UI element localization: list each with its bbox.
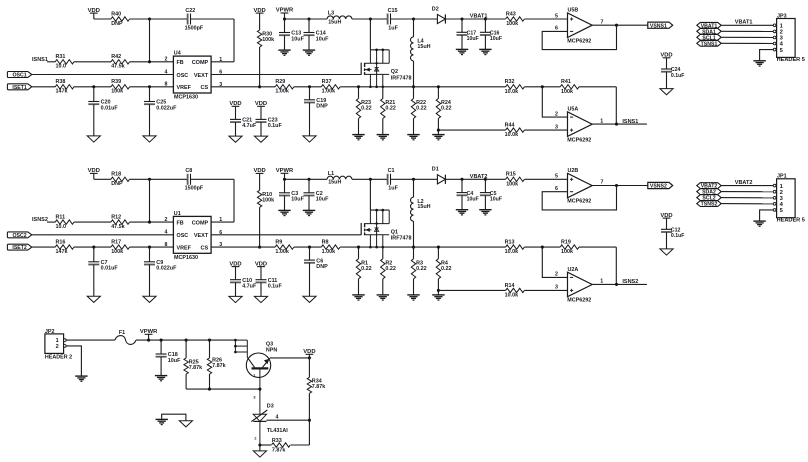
svg-text:U2A: U2A — [568, 267, 579, 273]
capacitor C14 10uF — [304, 19, 330, 42]
svg-text:ISNS1: ISNS1 — [32, 57, 48, 63]
power VDD — [660, 53, 672, 70]
resistor R42 47.5k — [111, 54, 130, 69]
svg-text:DNP: DNP — [111, 181, 123, 187]
wire — [191, 179, 235, 222]
svg-text:MCP6292: MCP6292 — [567, 38, 591, 44]
wire — [542, 87, 567, 117]
capacitor C12 0.1uF — [661, 228, 684, 240]
svg-text:4: 4 — [165, 69, 168, 75]
ground — [432, 135, 444, 140]
ground — [179, 421, 192, 427]
wire D3 ref — [267, 419, 310, 421]
svg-text:15uH: 15uH — [328, 19, 341, 25]
svg-text:R14: R14 — [505, 283, 515, 289]
svg-text:7.87k: 7.87k — [189, 365, 203, 371]
svg-text:R11: R11 — [56, 215, 66, 221]
svg-text:VREF: VREF — [177, 85, 192, 91]
wire — [413, 279, 415, 295]
power VDD — [88, 8, 100, 19]
svg-text:R32: R32 — [505, 79, 515, 85]
wire — [74, 85, 111, 88]
ground — [432, 295, 444, 300]
svg-text:VEXT: VEXT — [194, 73, 209, 79]
op-amp U5A MCP6292 — [555, 107, 603, 144]
svg-text:VREF: VREF — [177, 245, 192, 251]
svg-text:0.22: 0.22 — [441, 106, 452, 112]
svg-text:4: 4 — [276, 414, 279, 420]
wire — [32, 234, 174, 236]
svg-text:0.01uF: 0.01uF — [101, 266, 119, 272]
wire — [211, 246, 275, 248]
net label VBAT2 — [470, 174, 488, 180]
svg-text:100k: 100k — [111, 89, 123, 95]
svg-text:COMP: COMP — [192, 60, 209, 66]
svg-text:15uH: 15uH — [417, 44, 430, 50]
wire — [358, 279, 360, 295]
svg-text:R33: R33 — [272, 438, 282, 444]
wire — [437, 279, 440, 295]
wire — [149, 265, 151, 297]
wire — [484, 195, 486, 209]
svg-text:DNP: DNP — [316, 264, 328, 270]
power VDD — [229, 261, 241, 279]
svg-text:8: 8 — [165, 82, 168, 88]
wire — [74, 246, 111, 249]
svg-text:10uF: 10uF — [291, 197, 304, 203]
wire — [284, 35, 286, 50]
ground — [352, 135, 364, 140]
port SCL1 — [697, 34, 721, 41]
wire — [542, 247, 567, 277]
svg-text:2: 2 — [780, 30, 783, 36]
resistor R39 100k — [111, 79, 130, 95]
svg-text:JP2: JP2 — [45, 329, 55, 335]
wire — [391, 17, 438, 20]
wire — [309, 263, 311, 296]
svg-text:VSNS1: VSNS1 — [650, 23, 667, 29]
svg-text:47.5k: 47.5k — [111, 64, 125, 70]
power VDD — [88, 168, 100, 179]
svg-text:0.1uF: 0.1uF — [268, 123, 283, 129]
svg-text:147k: 147k — [56, 89, 68, 95]
capacitor C18 10uF — [156, 340, 181, 364]
svg-text:R42: R42 — [111, 54, 121, 60]
svg-text:100k: 100k — [111, 249, 123, 255]
svg-text:COMP: COMP — [192, 220, 209, 226]
wire — [308, 393, 311, 445]
pin numbers U4 — [165, 57, 223, 88]
svg-text:7.87k: 7.87k — [212, 363, 226, 369]
ground — [278, 50, 290, 55]
svg-text:D2: D2 — [432, 6, 439, 12]
wire — [260, 122, 262, 136]
capacitor C9 0.022uF — [144, 247, 177, 272]
port TSNS2 — [697, 201, 721, 208]
ground — [75, 376, 87, 381]
resistor R31 10.0 — [55, 54, 74, 69]
svg-text:4: 4 — [780, 42, 784, 48]
svg-text:100k: 100k — [262, 37, 274, 43]
svg-text:C22: C22 — [185, 8, 195, 14]
ground — [660, 89, 673, 95]
wire — [291, 444, 310, 446]
wire — [721, 42, 773, 44]
svg-text:5: 5 — [555, 13, 558, 19]
svg-text:1: 1 — [253, 373, 255, 377]
capacitor C2 10uF — [304, 179, 330, 202]
resistor R8 1.00k — [321, 240, 340, 256]
svg-text:U1: U1 — [174, 211, 181, 217]
connector JP2 HEADER 2 — [45, 329, 72, 361]
capacitor C1 1uF — [388, 168, 399, 192]
svg-text:TSNS1: TSNS1 — [701, 41, 718, 47]
svg-text:R44: R44 — [505, 123, 515, 129]
resistor R29 1.00k — [275, 79, 294, 95]
svg-text:1uF: 1uF — [388, 186, 398, 192]
capacitor C24 0.1uF — [661, 67, 684, 79]
svg-text:FB: FB — [177, 220, 184, 226]
wire — [438, 129, 505, 131]
svg-text:R13: R13 — [505, 240, 515, 246]
ground — [143, 136, 156, 142]
svg-text:4: 4 — [165, 230, 168, 236]
capacitor C22 1500pF — [185, 8, 204, 32]
svg-text:R8: R8 — [322, 240, 329, 246]
svg-text:10uF: 10uF — [467, 36, 479, 42]
svg-text:OSC: OSC — [177, 73, 189, 79]
wire — [382, 119, 384, 135]
svg-text:147k: 147k — [56, 249, 68, 255]
ground — [87, 136, 100, 142]
wire header pin5 to ground — [760, 50, 774, 61]
wire — [136, 339, 235, 342]
wire — [284, 196, 286, 211]
power VPWR — [276, 8, 294, 19]
svg-text:1uF: 1uF — [388, 25, 398, 31]
svg-text:MCP1630: MCP1630 — [174, 255, 198, 261]
wire base rail — [186, 388, 261, 391]
ground — [254, 136, 267, 142]
ground — [303, 136, 316, 142]
ground — [229, 136, 242, 142]
wire — [294, 85, 322, 88]
transistor Q2 IRF7478 — [361, 49, 411, 89]
wire — [666, 232, 668, 249]
svg-text:4.7uF: 4.7uF — [242, 123, 257, 129]
capacitor C20 0.01uF — [88, 87, 118, 112]
wire — [130, 246, 174, 249]
svg-text:4: 4 — [780, 202, 784, 208]
wire — [32, 86, 56, 88]
wire — [66, 346, 81, 376]
svg-text:OSC: OSC — [177, 233, 189, 239]
svg-text:IRF7478: IRF7478 — [391, 236, 412, 242]
power VDD — [253, 8, 265, 30]
svg-text:0.22: 0.22 — [385, 106, 396, 112]
svg-text:0.22: 0.22 — [416, 106, 427, 112]
svg-text:DNP: DNP — [111, 21, 123, 27]
svg-text:R15: R15 — [506, 172, 516, 178]
wire — [74, 221, 111, 223]
power VDD — [303, 349, 315, 358]
capacitor C23 0.1uF — [256, 118, 283, 130]
wire — [524, 85, 560, 88]
svg-text:DNP: DNP — [316, 104, 328, 110]
resistor R14 10.0k — [505, 283, 525, 299]
svg-text:0.22: 0.22 — [361, 266, 372, 272]
wire — [445, 17, 505, 20]
svg-text:5: 5 — [780, 208, 784, 214]
wire op-amp U5B output — [592, 24, 648, 27]
svg-text:F1: F1 — [119, 330, 125, 336]
resistor R11 10.0 — [55, 215, 74, 231]
svg-text:ISET1: ISET1 — [12, 85, 27, 91]
resistor R23 0.22 — [356, 87, 371, 119]
svg-text:3: 3 — [555, 285, 558, 291]
wire — [524, 289, 567, 291]
svg-text:0.22: 0.22 — [441, 266, 452, 272]
power VPWR — [140, 329, 158, 340]
wire ground tie — [162, 414, 186, 421]
svg-text:100k: 100k — [561, 89, 573, 95]
ground — [229, 296, 242, 302]
ground — [407, 135, 419, 140]
diode D2 — [432, 6, 446, 23]
wire — [185, 374, 187, 389]
svg-text:10uF: 10uF — [316, 197, 329, 203]
wire — [412, 61, 415, 88]
svg-text:MCP1630: MCP1630 — [174, 95, 198, 101]
capacitor C21 4.7uF — [230, 118, 257, 130]
svg-text:1.00k: 1.00k — [322, 89, 336, 95]
wire emitter to VDD — [270, 356, 311, 359]
capacitor C4 10uF — [457, 179, 479, 202]
wire — [235, 282, 237, 296]
svg-text:FB: FB — [177, 60, 184, 66]
wire — [283, 17, 327, 20]
inductor L3 15uH — [327, 11, 352, 26]
net label ISNS1 — [32, 57, 55, 63]
svg-text:R9: R9 — [275, 240, 282, 246]
connector JP1 HEADER 5 — [773, 174, 805, 224]
resistor R12 47.5k — [111, 215, 130, 231]
svg-text:2: 2 — [165, 217, 168, 223]
svg-text:10uF: 10uF — [316, 36, 329, 42]
inductor L2 15uH — [411, 179, 431, 221]
wire — [437, 119, 440, 135]
ground — [352, 295, 364, 300]
svg-text:R31: R31 — [56, 54, 66, 60]
wire feedback U5B — [542, 25, 616, 49]
svg-text:U5B: U5B — [568, 8, 579, 14]
net label ISNS1 out — [622, 119, 638, 125]
wire VEXT to gate — [211, 234, 361, 236]
ground — [479, 210, 491, 215]
wire — [130, 221, 174, 224]
capacitor C15 1uF — [388, 8, 399, 32]
svg-text:2: 2 — [254, 436, 256, 440]
capacitor C7 0.01uF — [88, 247, 118, 272]
wire — [340, 85, 370, 88]
svg-text:7.87k: 7.87k — [272, 447, 286, 453]
svg-text:R18: R18 — [111, 172, 121, 178]
pin number D3 anode — [254, 436, 256, 440]
svg-text:R17: R17 — [111, 240, 121, 246]
resistor R30 100k — [257, 30, 274, 47]
port VBAT1 — [697, 22, 721, 29]
wire — [352, 17, 388, 20]
svg-text:100k: 100k — [506, 21, 518, 27]
wire — [32, 74, 174, 76]
resistor R10 100k — [257, 190, 274, 207]
svg-text:VBAT1: VBAT1 — [470, 14, 488, 20]
svg-text:1: 1 — [780, 24, 784, 30]
svg-text:C8: C8 — [185, 168, 192, 174]
svg-text:3: 3 — [555, 124, 558, 130]
transistor Q3 NPN — [246, 342, 277, 390]
svg-text:15uH: 15uH — [328, 180, 341, 186]
capacitor C11 0.1uF — [256, 278, 283, 290]
port ISET1 — [7, 84, 31, 91]
wire — [579, 87, 616, 124]
svg-text:1.00k: 1.00k — [322, 249, 336, 255]
wire — [382, 279, 384, 295]
wire op-amp U5A output — [592, 123, 647, 126]
svg-text:0.1uF: 0.1uF — [268, 284, 283, 290]
pin number — [253, 373, 255, 377]
resistor R22 0.22 — [411, 87, 426, 119]
svg-text:7: 7 — [601, 180, 604, 186]
svg-text:1: 1 — [600, 118, 603, 124]
connector JP3 HEADER 5 — [773, 13, 805, 63]
svg-text:R43: R43 — [506, 11, 516, 17]
ground — [660, 249, 673, 255]
svg-text:R37: R37 — [322, 79, 332, 85]
net label ISNS2 out — [622, 279, 638, 285]
port OSC1 — [7, 72, 31, 79]
wire — [721, 203, 773, 205]
svg-text:10uF: 10uF — [291, 36, 304, 42]
svg-text:VBAT2: VBAT2 — [470, 174, 488, 180]
wire — [666, 72, 668, 89]
svg-text:MCP6292: MCP6292 — [567, 137, 591, 143]
resistor R44 10.0k — [505, 123, 525, 139]
wire — [370, 246, 505, 249]
resistor R21 0.22 — [381, 87, 396, 119]
wire — [484, 35, 486, 49]
svg-text:D3: D3 — [267, 403, 274, 409]
svg-text:0.22: 0.22 — [385, 266, 396, 272]
resistor R43 100k — [506, 11, 525, 27]
ground — [479, 49, 491, 54]
ground — [303, 296, 316, 302]
resistor R37 1.00k — [321, 79, 340, 95]
svg-text:HEADER 2: HEADER 2 — [45, 354, 72, 360]
power VDD — [253, 168, 265, 190]
capacitor C10 4.7uF — [230, 278, 257, 290]
svg-text:0.01uF: 0.01uF — [101, 105, 119, 111]
svg-text:Q1: Q1 — [391, 230, 398, 236]
svg-text:5: 5 — [780, 48, 784, 54]
svg-text:TL431AI: TL431AI — [267, 428, 288, 434]
svg-text:1: 1 — [219, 217, 222, 223]
wire — [191, 19, 235, 62]
capacitor C25 0.022uF — [144, 87, 177, 112]
wire — [352, 178, 388, 181]
port VSNS1 — [648, 22, 673, 29]
port SCL2 — [697, 195, 721, 202]
capacitor C3 10uF — [279, 179, 305, 202]
svg-text:VEXT: VEXT — [194, 233, 209, 239]
node FB-COMP junction — [148, 178, 151, 181]
svg-text:100k: 100k — [561, 249, 573, 255]
pin numbers U1 — [165, 217, 223, 248]
svg-text:ISNS1: ISNS1 — [622, 119, 638, 125]
wire — [258, 47, 261, 88]
wire — [258, 207, 261, 248]
svg-text:HEADER 5: HEADER 5 — [777, 57, 805, 63]
wire — [130, 178, 188, 180]
wire — [130, 18, 188, 20]
svg-text:1: 1 — [600, 279, 603, 285]
inductor L1 15uH — [327, 171, 352, 186]
svg-text:MCP6292: MCP6292 — [567, 298, 591, 304]
svg-text:1500pF: 1500pF — [185, 25, 204, 31]
wire — [461, 35, 463, 49]
wire — [93, 265, 95, 297]
svg-text:C1: C1 — [388, 168, 395, 174]
wire — [235, 122, 237, 136]
node FB-COMP junction — [148, 17, 151, 20]
svg-text:NPN: NPN — [266, 347, 277, 353]
power VPWR — [276, 168, 294, 179]
op-amp U2B MCP6292 — [555, 168, 603, 205]
resistor R15 100k — [506, 172, 525, 188]
wire — [524, 18, 567, 20]
ground — [278, 210, 290, 215]
resistor R34 7.87k — [307, 358, 325, 393]
svg-text:ISNS2: ISNS2 — [32, 217, 48, 223]
wire — [413, 119, 415, 135]
wire — [438, 289, 505, 291]
svg-text:ISNS2: ISNS2 — [622, 279, 638, 285]
svg-text:0.22: 0.22 — [361, 106, 372, 112]
ground — [87, 296, 100, 302]
svg-text:0.1uF: 0.1uF — [671, 73, 685, 79]
wire — [258, 443, 271, 446]
wire — [149, 104, 151, 136]
svg-text:OSC2: OSC2 — [13, 233, 27, 239]
wire — [369, 19, 371, 50]
svg-text:1.00k: 1.00k — [275, 249, 289, 255]
wire VEXT to gate — [211, 74, 361, 76]
svg-text:0.022uF: 0.022uF — [156, 266, 177, 272]
svg-text:7: 7 — [601, 19, 604, 25]
power VDD — [255, 101, 267, 119]
port ISET2 — [7, 244, 31, 251]
wire — [461, 195, 463, 209]
wire — [721, 185, 773, 187]
svg-text:10.0: 10.0 — [56, 224, 67, 230]
svg-text:R16: R16 — [56, 240, 66, 246]
power VDD — [255, 261, 267, 279]
capacitor C5 10uF — [480, 179, 502, 202]
wire — [149, 19, 151, 62]
svg-text:U4: U4 — [174, 51, 181, 57]
wire — [93, 104, 95, 136]
svg-text:CS: CS — [201, 85, 209, 91]
